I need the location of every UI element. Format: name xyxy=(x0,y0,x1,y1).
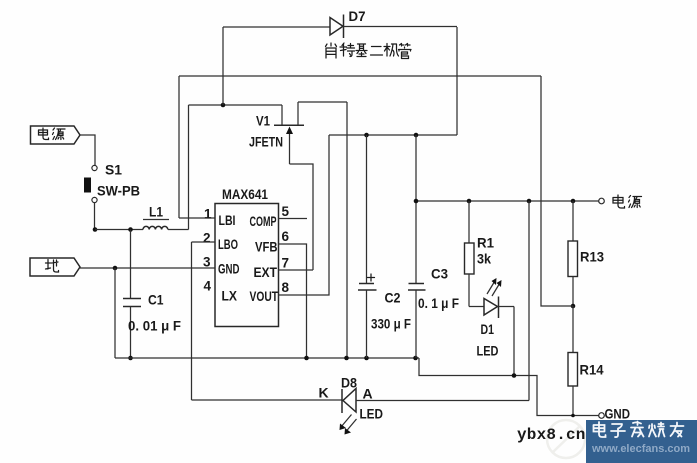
svg-text:0. 1 μ F: 0. 1 μ F xyxy=(418,296,459,311)
wire top rail y76 (LBI to divider) xyxy=(179,75,541,77)
wire battery line y229.5 xyxy=(95,229,143,231)
svg-text:0. 01 μ F: 0. 01 μ F xyxy=(128,319,181,334)
svg-text:3: 3 xyxy=(203,255,211,270)
LED D8 xyxy=(340,201,530,435)
node R1 branch junction xyxy=(467,199,472,204)
svg-text:V1: V1 xyxy=(256,113,270,129)
svg-text:EXT: EXT xyxy=(254,264,278,280)
wire from flag to S1 xyxy=(80,135,95,165)
svg-text:LBO: LBO xyxy=(218,236,238,252)
wire x457 down to VOUT line xyxy=(456,27,458,135)
svg-text:VOUT: VOUT xyxy=(250,288,279,304)
resistor R13 xyxy=(568,201,578,306)
svg-text:R1: R1 xyxy=(477,235,494,251)
svg-text:6: 6 xyxy=(282,229,290,244)
node ground rail branch xyxy=(113,266,118,271)
wire S1 to L1 line xyxy=(94,203,96,230)
IC U1 MAX641 box xyxy=(215,204,279,327)
node D7 anode branch junction xyxy=(221,103,226,108)
node C2 top junction xyxy=(364,133,369,138)
svg-text:C2: C2 xyxy=(385,290,401,306)
svg-text:S1: S1 xyxy=(105,162,122,178)
svg-text:1: 1 xyxy=(204,207,212,222)
connector flag 地 input xyxy=(30,258,80,276)
label schottky diode (chinese) 肖特基二极管 xyxy=(326,43,412,59)
wire ground line y268 to GND pin xyxy=(80,267,215,269)
wire D1 cathode down xyxy=(513,307,515,376)
wire D7 anode line xyxy=(223,26,330,28)
label 电源 output (chinese) xyxy=(613,195,642,208)
capacitor C3 xyxy=(408,135,426,358)
wire pin1 LBI stub xyxy=(179,217,215,219)
wire switch-node vertical x188.5 xyxy=(188,105,190,230)
node V1 drain rail junction xyxy=(344,356,349,361)
wire output rail y201 xyxy=(416,200,599,202)
switch S1 SW-PB xyxy=(84,165,97,202)
wire V1 gate-arrow to EXT xyxy=(290,164,314,270)
resistor R14 xyxy=(568,306,578,416)
wire divider to x541 riser xyxy=(541,76,573,306)
wire ground return path xyxy=(419,358,599,416)
wire gate line y105 xyxy=(189,104,283,106)
wire x347 drain down to bottom rail xyxy=(346,102,348,358)
watermark circle xyxy=(547,420,585,458)
node S1 bottom junction xyxy=(93,227,98,232)
node C3/output junction xyxy=(414,199,419,204)
node C2 bottom junction xyxy=(364,356,369,361)
svg-text:GND: GND xyxy=(605,406,631,422)
connector flag 电源 input xyxy=(31,126,81,144)
wire pin5 COMP stub xyxy=(279,218,308,220)
svg-text:4: 4 xyxy=(204,279,212,294)
terminal 电源 output xyxy=(599,198,605,204)
svg-text:L1: L1 xyxy=(149,204,163,220)
svg-text:SW-PB: SW-PB xyxy=(97,183,140,199)
svg-text:D1: D1 xyxy=(481,321,495,337)
diode D7 schottky xyxy=(330,15,344,39)
wire L1 to switch node xyxy=(168,229,189,231)
node R14 bottom junction xyxy=(571,414,575,418)
svg-text:R14: R14 xyxy=(580,362,604,378)
node VFB-rail junction xyxy=(304,356,309,361)
capacitor C1 xyxy=(123,230,141,359)
svg-text:VFB: VFB xyxy=(255,239,278,255)
svg-text:LX: LX xyxy=(222,288,238,304)
svg-text:A: A xyxy=(363,386,373,402)
wire bottom ground rail y358 xyxy=(115,357,419,359)
wire VOUT top line y135 xyxy=(329,134,457,136)
node C1 branch junction xyxy=(128,227,133,232)
svg-text:ybx8.cn: ybx8.cn xyxy=(517,426,586,444)
svg-text:5: 5 xyxy=(282,204,290,219)
svg-text:LED: LED xyxy=(360,406,384,422)
watermark elecfans logo box xyxy=(586,420,697,463)
svg-text:7: 7 xyxy=(282,256,290,271)
wire pin8 VOUT riser xyxy=(279,135,330,295)
svg-text:R13: R13 xyxy=(580,249,604,265)
inductor L1 xyxy=(143,220,169,230)
node D8 anode branch junction xyxy=(527,199,532,204)
LED D1 xyxy=(469,278,514,318)
node D1 return junction xyxy=(512,373,517,378)
resistor R1 xyxy=(465,201,475,307)
svg-text:D7: D7 xyxy=(349,8,366,24)
svg-text:www.elecfans.com: www.elecfans.com xyxy=(591,443,690,455)
node R13 branch junction xyxy=(571,199,576,204)
svg-text:C1: C1 xyxy=(148,292,164,308)
node C3 bottom junction xyxy=(413,356,418,361)
wire x115 down xyxy=(114,268,116,358)
svg-text:JFETN: JFETN xyxy=(249,134,283,150)
svg-text:8: 8 xyxy=(282,280,290,295)
svg-text:K: K xyxy=(319,385,329,401)
terminal GND xyxy=(599,413,605,419)
wire D7 cathode line xyxy=(344,26,458,28)
wire pin7 EXT stub xyxy=(279,269,314,271)
svg-text:COMP: COMP xyxy=(250,213,277,229)
transistor V1 JFETN xyxy=(274,102,304,164)
svg-text:330 μ F: 330 μ F xyxy=(371,317,411,332)
node C3 top junction xyxy=(414,133,419,138)
svg-text:D8: D8 xyxy=(341,375,357,391)
node R13/R14 divider junction xyxy=(571,304,576,309)
wire x179 vertical to pin1 xyxy=(178,76,180,218)
wire x223 up to D7 xyxy=(222,27,224,105)
svg-text:2: 2 xyxy=(203,231,211,246)
node C1 bottom junction xyxy=(128,356,133,361)
capacitor C2 electrolytic xyxy=(358,135,377,358)
wire V1 drain top xyxy=(298,101,347,103)
svg-text:LED: LED xyxy=(477,343,499,359)
svg-text:C3: C3 xyxy=(431,266,448,282)
svg-text:MAX641: MAX641 xyxy=(222,186,268,202)
wire pin6 VFB to ground rail xyxy=(279,244,307,358)
svg-text:LBI: LBI xyxy=(219,212,236,228)
wire LBO to D8 xyxy=(192,242,343,400)
svg-text:3k: 3k xyxy=(477,251,491,267)
svg-text:GND: GND xyxy=(218,261,240,277)
